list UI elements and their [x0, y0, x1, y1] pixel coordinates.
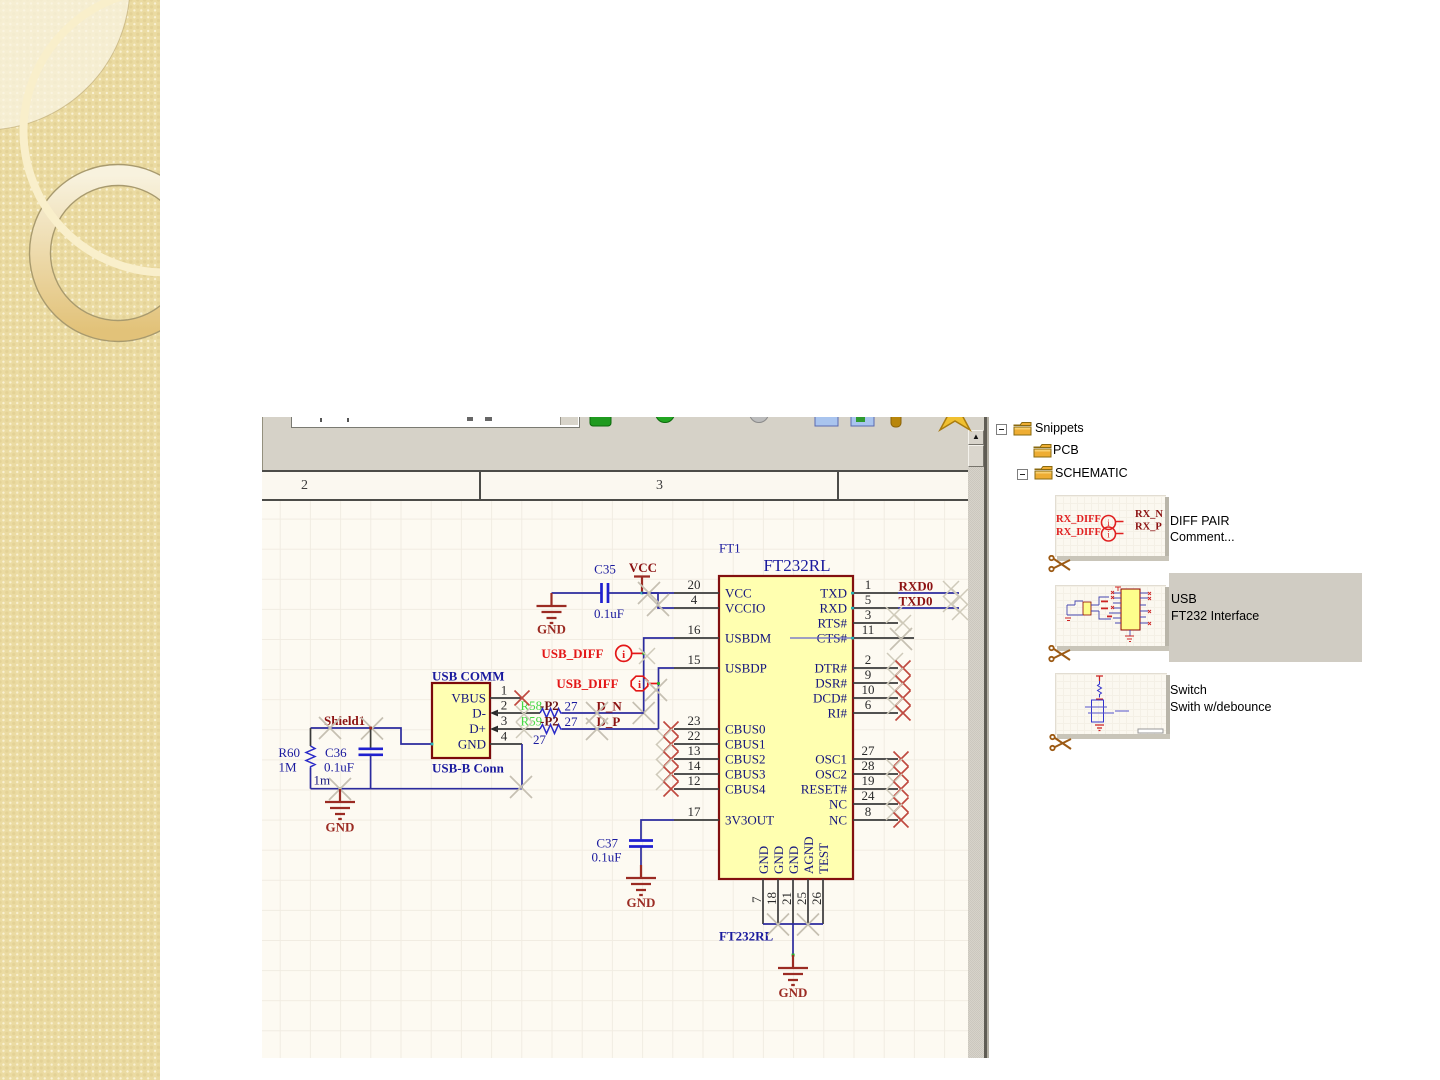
- svg-text:1M: 1M: [278, 760, 297, 775]
- svg-text:13: 13: [688, 743, 701, 758]
- svg-text:RXD: RXD: [820, 601, 847, 616]
- svg-text:27: 27: [565, 714, 579, 729]
- svg-text:USB-B Conn: USB-B Conn: [432, 761, 505, 776]
- capacitor C37: [629, 841, 653, 847]
- capacitor C35: [552, 592, 602, 594]
- svg-text:4: 4: [501, 729, 508, 744]
- svg-text:GND: GND: [458, 737, 486, 752]
- svg-text:i: i: [638, 679, 641, 691]
- svg-text:21: 21: [779, 892, 794, 905]
- svg-text:11: 11: [862, 622, 875, 637]
- svg-text:CBUS0: CBUS0: [725, 722, 765, 737]
- svg-text:D-: D-: [472, 706, 486, 721]
- svg-text:23: 23: [688, 713, 701, 728]
- crosses modem pins: [887, 653, 903, 669]
- snippet thumb 2 USB FT232: [1055, 585, 1166, 647]
- snippet thumb 1 DIFF PAIR: [1055, 495, 1166, 557]
- svg-text:7: 7: [749, 896, 764, 903]
- svg-text:27: 27: [565, 699, 579, 714]
- svg-text:RX_DIFF: RX_DIFF: [1056, 514, 1101, 525]
- svg-text:USB_DIFF: USB_DIFF: [556, 676, 618, 691]
- resistor R59: [540, 725, 562, 734]
- wire bottom gnd bus: [763, 923, 823, 925]
- IC bottom pin names rotated: [756, 836, 831, 874]
- svg-text:2: 2: [865, 652, 872, 667]
- svg-text:RESET#: RESET#: [801, 782, 848, 797]
- ground shield: [339, 787, 342, 790]
- svg-text:C35: C35: [594, 562, 616, 577]
- svg-text:TXD: TXD: [820, 586, 847, 601]
- svg-text:CBUS2: CBUS2: [725, 752, 765, 767]
- svg-text:8: 8: [865, 804, 872, 819]
- right panel tree: [996, 424, 1007, 435]
- svg-text:4: 4: [691, 592, 698, 607]
- svg-text:GND: GND: [779, 985, 808, 1000]
- IC left pin names: [725, 586, 774, 828]
- svg-text:D_N: D_N: [597, 699, 623, 714]
- svg-text:10: 10: [862, 682, 875, 697]
- resistor R58: [540, 709, 562, 718]
- svg-text:VCC: VCC: [725, 586, 752, 601]
- connector pin stubs: [490, 697, 522, 699]
- svg-text:27: 27: [533, 732, 547, 747]
- svg-text:R60: R60: [278, 745, 300, 760]
- crosses right wires: [943, 581, 959, 597]
- svg-text:RX_N: RX_N: [1135, 509, 1163, 520]
- svg-text:3: 3: [865, 607, 872, 622]
- wire TXD0: [898, 607, 959, 609]
- svg-text:-P2: -P2: [540, 714, 559, 729]
- wire RXD0: [898, 592, 959, 594]
- svg-text:GND: GND: [756, 846, 771, 874]
- svg-text:OSC2: OSC2: [815, 767, 847, 782]
- svg-text:25: 25: [794, 892, 809, 905]
- svg-text:28: 28: [862, 758, 875, 773]
- svg-text:GND: GND: [627, 895, 656, 910]
- svg-text:0.1uF: 0.1uF: [592, 850, 622, 865]
- wire to gnd: [792, 924, 794, 955]
- svg-text:2: 2: [501, 698, 508, 713]
- svg-text:NC: NC: [829, 797, 847, 812]
- svg-text:1: 1: [865, 577, 872, 592]
- svg-text:USB COMM: USB COMM: [432, 669, 505, 684]
- svg-text:9: 9: [865, 667, 872, 682]
- pin arrows D- D+: [490, 710, 498, 717]
- svg-text:RTS#: RTS#: [817, 616, 847, 631]
- svg-text:TXD0: TXD0: [899, 594, 933, 609]
- svg-text:GND: GND: [771, 846, 786, 874]
- svg-text:26: 26: [809, 892, 824, 906]
- crosses CBUS pins: [664, 722, 679, 737]
- no-ERC crosses under IC: [767, 914, 789, 936]
- svg-text:VBUS: VBUS: [451, 691, 486, 706]
- svg-text:27: 27: [862, 743, 876, 758]
- capacitor C36: [370, 728, 372, 748]
- selection highlight row2: [1169, 573, 1362, 662]
- svg-text:GND: GND: [786, 846, 801, 874]
- svg-text:GND: GND: [537, 622, 566, 637]
- decorative left strip: [0, 0, 160, 1080]
- wire VCCIO: [642, 593, 674, 608]
- svg-text:RX_DIFF: RX_DIFF: [1056, 527, 1101, 538]
- svg-text:AGND: AGND: [801, 836, 816, 874]
- IC left pin numbers: [688, 577, 702, 819]
- svg-text:OSC1: OSC1: [815, 752, 847, 767]
- wire D_P: [562, 728, 659, 730]
- svg-text:FT1: FT1: [719, 541, 741, 556]
- svg-text:VCC: VCC: [629, 560, 657, 575]
- connector pin numbers: [501, 683, 508, 744]
- wire bottom shield bus: [311, 788, 523, 790]
- snippet thumb 3 Switch: [1055, 673, 1167, 735]
- svg-text:CBUS1: CBUS1: [725, 737, 765, 752]
- svg-text:RI#: RI#: [828, 706, 848, 721]
- crosses osc pins: [894, 752, 909, 767]
- svg-text:CBUS4: CBUS4: [725, 782, 766, 797]
- svg-text:1m: 1m: [314, 773, 331, 788]
- svg-text:17: 17: [688, 804, 702, 819]
- svg-text:i: i: [622, 649, 625, 661]
- svg-text:16: 16: [688, 622, 702, 637]
- wire GND pin down: [521, 744, 523, 789]
- svg-text:TEST: TEST: [816, 843, 831, 874]
- altium window: [262, 417, 990, 1058]
- svg-text:22: 22: [688, 728, 701, 743]
- schematic SVG overlay goes here: [262, 417, 990, 1058]
- svg-text:USBDP: USBDP: [725, 661, 767, 676]
- svg-text:DTR#: DTR#: [815, 661, 848, 676]
- IC right pin numbers: [862, 577, 876, 819]
- svg-text:USB_DIFF: USB_DIFF: [541, 646, 603, 661]
- svg-text:C36: C36: [325, 745, 347, 760]
- svg-text:VCCIO: VCCIO: [725, 601, 765, 616]
- svg-text:NC: NC: [829, 813, 847, 828]
- IC right pin stubs: [853, 593, 914, 820]
- svg-text:FT232RL: FT232RL: [719, 929, 774, 944]
- svg-text:-P2: -P2: [540, 698, 559, 713]
- svg-text:D+: D+: [469, 721, 486, 736]
- junction: [792, 954, 795, 957]
- svg-text:0.1uF: 0.1uF: [324, 760, 354, 775]
- svg-text:CBUS3: CBUS3: [725, 767, 765, 782]
- ground C37: [626, 865, 656, 895]
- svg-text:18: 18: [764, 892, 779, 905]
- svg-text:19: 19: [862, 773, 875, 788]
- line inside IC at CTS#: [790, 637, 851, 639]
- svg-text:24: 24: [862, 788, 876, 803]
- svg-text:5: 5: [865, 592, 872, 607]
- IC left pin stubs: [674, 593, 719, 820]
- ground at C35: [537, 593, 567, 623]
- wire shield to box: [311, 728, 433, 744]
- resistor R60: [310, 728, 312, 746]
- svg-text:20: 20: [688, 577, 701, 592]
- svg-text:RXD0: RXD0: [899, 579, 934, 594]
- IC bottom pin stubs: [763, 879, 823, 924]
- IC bottom pin numbers rotated: [749, 892, 824, 906]
- svg-text:FT232RL: FT232RL: [763, 556, 830, 575]
- svg-text:GND: GND: [326, 820, 355, 835]
- ground under IC: [778, 955, 808, 985]
- svg-text:DSR#: DSR#: [815, 676, 847, 691]
- wire D_N: [562, 712, 644, 714]
- svg-text:1: 1: [501, 683, 508, 698]
- svg-text:15: 15: [688, 652, 701, 667]
- connector J1 USB COMM body: [432, 683, 490, 758]
- cross VBUS: [515, 691, 530, 706]
- IC FT1 FT232RL body: [719, 576, 853, 879]
- svg-text:12: 12: [688, 773, 701, 788]
- svg-text:i: i: [1107, 530, 1110, 540]
- svg-text:3: 3: [501, 713, 508, 728]
- wire USBDM: [644, 638, 674, 713]
- svg-text:6: 6: [865, 697, 872, 712]
- svg-text:3V3OUT: 3V3OUT: [725, 813, 774, 828]
- svg-text:USBDM: USBDM: [725, 631, 772, 646]
- pin connection ticks: [851, 592, 854, 595]
- svg-text:Shield1: Shield1: [324, 713, 365, 728]
- toolbar icons svg: [580, 417, 990, 439]
- svg-text:0.1uF: 0.1uF: [594, 606, 624, 621]
- svg-text:DCD#: DCD#: [813, 691, 847, 706]
- svg-text:C37: C37: [596, 836, 618, 851]
- svg-text:14: 14: [688, 758, 702, 773]
- power port VCC: [634, 577, 650, 594]
- wire 3V3OUT: [641, 820, 674, 840]
- wire USBDP: [659, 668, 675, 729]
- IC right pin names: [801, 586, 848, 828]
- svg-text:RX_P: RX_P: [1135, 522, 1162, 533]
